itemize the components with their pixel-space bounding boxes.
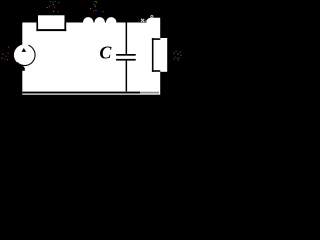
svg-text:C: C	[99, 42, 112, 62]
